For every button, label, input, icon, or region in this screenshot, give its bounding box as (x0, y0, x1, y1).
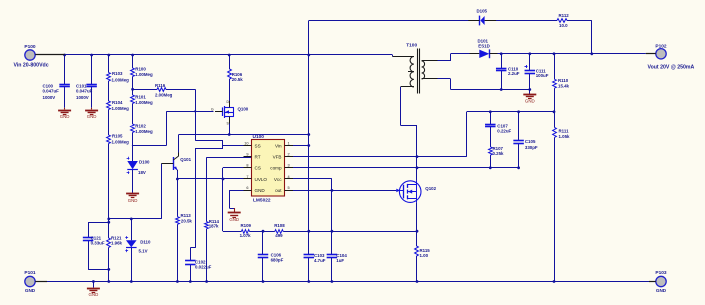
svg-text:R105: R105 (112, 134, 123, 139)
svg-text:1.00Meg: 1.00Meg (135, 129, 153, 134)
svg-text:1.00Meg: 1.00Meg (112, 77, 130, 82)
svg-text:1000V: 1000V (43, 95, 56, 100)
svg-text:5: 5 (288, 186, 290, 190)
svg-text:UVLO: UVLO (255, 177, 268, 182)
svg-text:R112: R112 (559, 13, 570, 18)
svg-text:ES1D: ES1D (478, 43, 489, 48)
svg-text:GND: GND (128, 198, 138, 203)
svg-text:0.33uF: 0.33uF (91, 240, 105, 245)
svg-text:15.4k: 15.4k (558, 84, 570, 89)
svg-text:1.00Meg: 1.00Meg (112, 106, 130, 111)
svg-text:R116: R116 (155, 83, 166, 88)
svg-text:1.05k: 1.05k (559, 134, 571, 139)
svg-text:R102: R102 (135, 123, 146, 128)
svg-text:GND: GND (25, 288, 36, 293)
svg-text:1.07k: 1.07k (240, 233, 252, 238)
svg-text:187k: 187k (209, 223, 219, 228)
svg-text:LM5022: LM5022 (253, 198, 271, 204)
svg-text:2.00Meg: 2.00Meg (155, 92, 173, 97)
svg-text:1.00: 1.00 (420, 253, 429, 258)
svg-text:0.022uF: 0.022uF (195, 265, 212, 270)
svg-text:2: 2 (288, 152, 290, 156)
svg-text:8: 8 (246, 164, 248, 168)
svg-text:20.5k: 20.5k (181, 218, 193, 223)
svg-text:R100: R100 (135, 67, 146, 72)
svg-text:P103: P103 (655, 270, 667, 276)
svg-text:P102: P102 (655, 43, 667, 49)
svg-text:330pF: 330pF (525, 145, 538, 150)
svg-text:3: 3 (288, 164, 290, 168)
svg-text:GND: GND (525, 99, 535, 104)
svg-text:R103: R103 (112, 71, 123, 76)
svg-text:out: out (275, 188, 282, 193)
svg-text:U100: U100 (253, 134, 265, 140)
svg-text:GND: GND (60, 114, 70, 119)
svg-text:VFB: VFB (273, 154, 282, 159)
svg-text:P101: P101 (24, 270, 36, 276)
svg-text:10: 10 (244, 141, 248, 145)
svg-text:20.5k: 20.5k (232, 77, 244, 82)
svg-text:R108: R108 (274, 223, 285, 228)
svg-text:Q102: Q102 (425, 186, 436, 191)
svg-text:1: 1 (288, 141, 290, 145)
svg-text:1.00Meg: 1.00Meg (112, 139, 130, 144)
svg-text:5.1V: 5.1V (139, 249, 148, 254)
svg-text:10.0: 10.0 (559, 23, 568, 28)
svg-text:R110: R110 (558, 78, 569, 83)
svg-text:680pF: 680pF (271, 257, 284, 262)
svg-text:comp: comp (270, 166, 282, 171)
svg-text:1000V: 1000V (76, 95, 89, 100)
svg-text:GND: GND (87, 114, 97, 119)
svg-text:T100: T100 (406, 42, 417, 48)
svg-text:7: 7 (246, 175, 248, 179)
svg-text:0.22uF: 0.22uF (497, 129, 511, 134)
svg-text:6: 6 (246, 186, 248, 190)
svg-text:0.25k: 0.25k (493, 151, 505, 156)
svg-text:CS: CS (255, 166, 261, 171)
svg-text:D110: D110 (140, 240, 151, 245)
svg-text:499: 499 (275, 233, 283, 238)
svg-text:D105: D105 (477, 8, 488, 13)
svg-text:100uF: 100uF (536, 73, 549, 78)
svg-text:RT: RT (255, 154, 261, 159)
svg-text:R101: R101 (135, 94, 146, 99)
svg-text:C105: C105 (525, 139, 536, 144)
svg-text:Q101: Q101 (180, 157, 191, 162)
svg-text:GND: GND (656, 288, 667, 293)
svg-text:GND: GND (229, 217, 239, 222)
svg-text:0.047uF: 0.047uF (43, 88, 60, 93)
svg-text:Q100: Q100 (238, 107, 249, 112)
svg-text:SS: SS (255, 143, 261, 148)
svg-text:Vin 20-800Vdc: Vin 20-800Vdc (14, 63, 49, 69)
svg-text:D100: D100 (139, 160, 150, 165)
svg-text:P100: P100 (24, 44, 36, 50)
svg-text:4: 4 (288, 175, 290, 179)
svg-text:Vcc: Vcc (274, 177, 282, 182)
svg-text:9: 9 (246, 152, 248, 156)
svg-text:1.00Meg: 1.00Meg (135, 72, 153, 77)
svg-text:2.2uF: 2.2uF (508, 71, 520, 76)
svg-text:GND: GND (255, 188, 266, 193)
svg-text:1.96k: 1.96k (111, 240, 123, 245)
svg-text:1uF: 1uF (336, 258, 344, 263)
svg-text:GND: GND (89, 292, 99, 297)
svg-text:R104: R104 (112, 100, 123, 105)
svg-text:R109: R109 (241, 223, 252, 228)
svg-text:18V: 18V (138, 170, 146, 175)
svg-text:Vin: Vin (275, 143, 282, 148)
svg-text:R111: R111 (559, 128, 570, 133)
svg-text:C107: C107 (497, 123, 508, 128)
svg-text:Vout 20V @ 250mA: Vout 20V @ 250mA (648, 65, 695, 71)
svg-text:4.7uF: 4.7uF (314, 258, 326, 263)
svg-text:1.00Meg: 1.00Meg (135, 100, 153, 105)
svg-text:0.047uF: 0.047uF (76, 88, 93, 93)
svg-text:G: G (211, 108, 214, 112)
